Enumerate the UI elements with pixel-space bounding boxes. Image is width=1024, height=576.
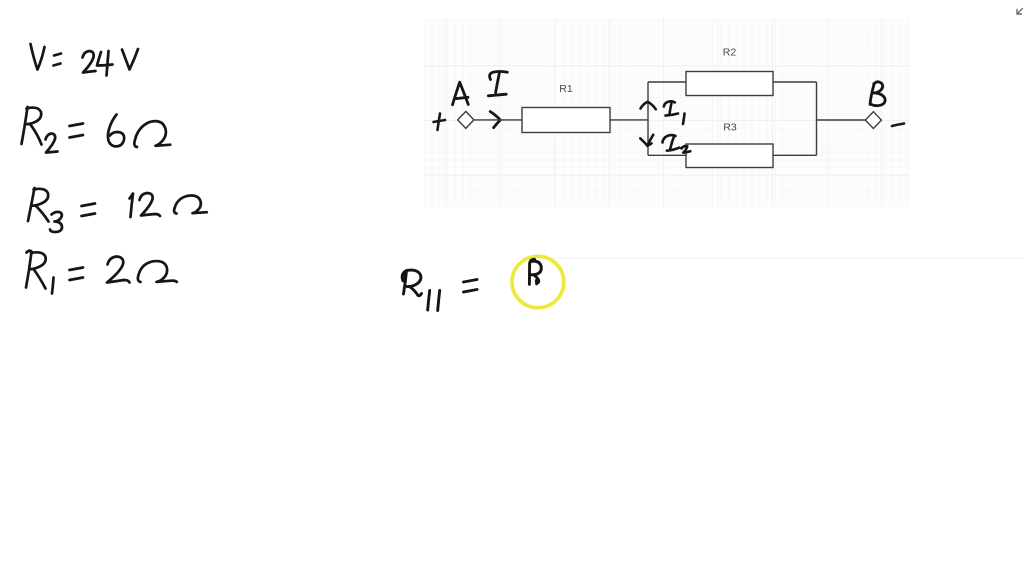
resistor R2 bbox=[686, 72, 773, 96]
node label A bbox=[453, 82, 469, 105]
faint divider line bbox=[520, 257, 1024, 258]
corner cursor icon bbox=[1017, 9, 1023, 15]
node B bbox=[865, 112, 881, 129]
wire junction to node B bbox=[817, 119, 866, 121]
current arrow I2 bbox=[640, 135, 690, 153]
junction right vertical wire bbox=[816, 82, 818, 155]
handwritten value V = 24 V bbox=[31, 44, 139, 76]
svg-text:R1: R1 bbox=[559, 83, 573, 95]
grid paper background bbox=[424, 19, 910, 207]
node A bbox=[458, 111, 474, 128]
handwritten result R|| = bbox=[403, 270, 477, 310]
current arrow I bbox=[488, 72, 507, 128]
wire top branch right bbox=[773, 81, 817, 83]
label R2 bbox=[723, 47, 737, 59]
label R1 bbox=[559, 83, 573, 95]
junction left vertical wire bbox=[647, 82, 649, 155]
handwritten R inside circle bbox=[529, 259, 541, 284]
wire bottom branch right bbox=[773, 154, 817, 156]
resistor R1 bbox=[522, 108, 610, 133]
node label B bbox=[870, 82, 885, 106]
resistor R3 bbox=[686, 144, 773, 168]
label R3 bbox=[723, 122, 737, 134]
svg-text:R2: R2 bbox=[723, 47, 737, 59]
minus terminal bbox=[892, 124, 904, 127]
wire bottom branch left bbox=[648, 154, 686, 156]
wire node A to R1 bbox=[474, 119, 522, 121]
svg-text:R3: R3 bbox=[723, 122, 737, 134]
wire top branch left bbox=[648, 81, 686, 83]
handwritten value R1 = 2 ohm bbox=[26, 251, 177, 294]
yellow highlight circle bbox=[512, 256, 564, 307]
handwritten value R3 = 12 ohm bbox=[28, 188, 207, 232]
wire R1 to junction bbox=[610, 119, 648, 121]
current arrow I1 bbox=[641, 101, 685, 124]
plus terminal bbox=[434, 114, 446, 131]
handwritten value R2 = 6 ohm bbox=[22, 107, 171, 153]
